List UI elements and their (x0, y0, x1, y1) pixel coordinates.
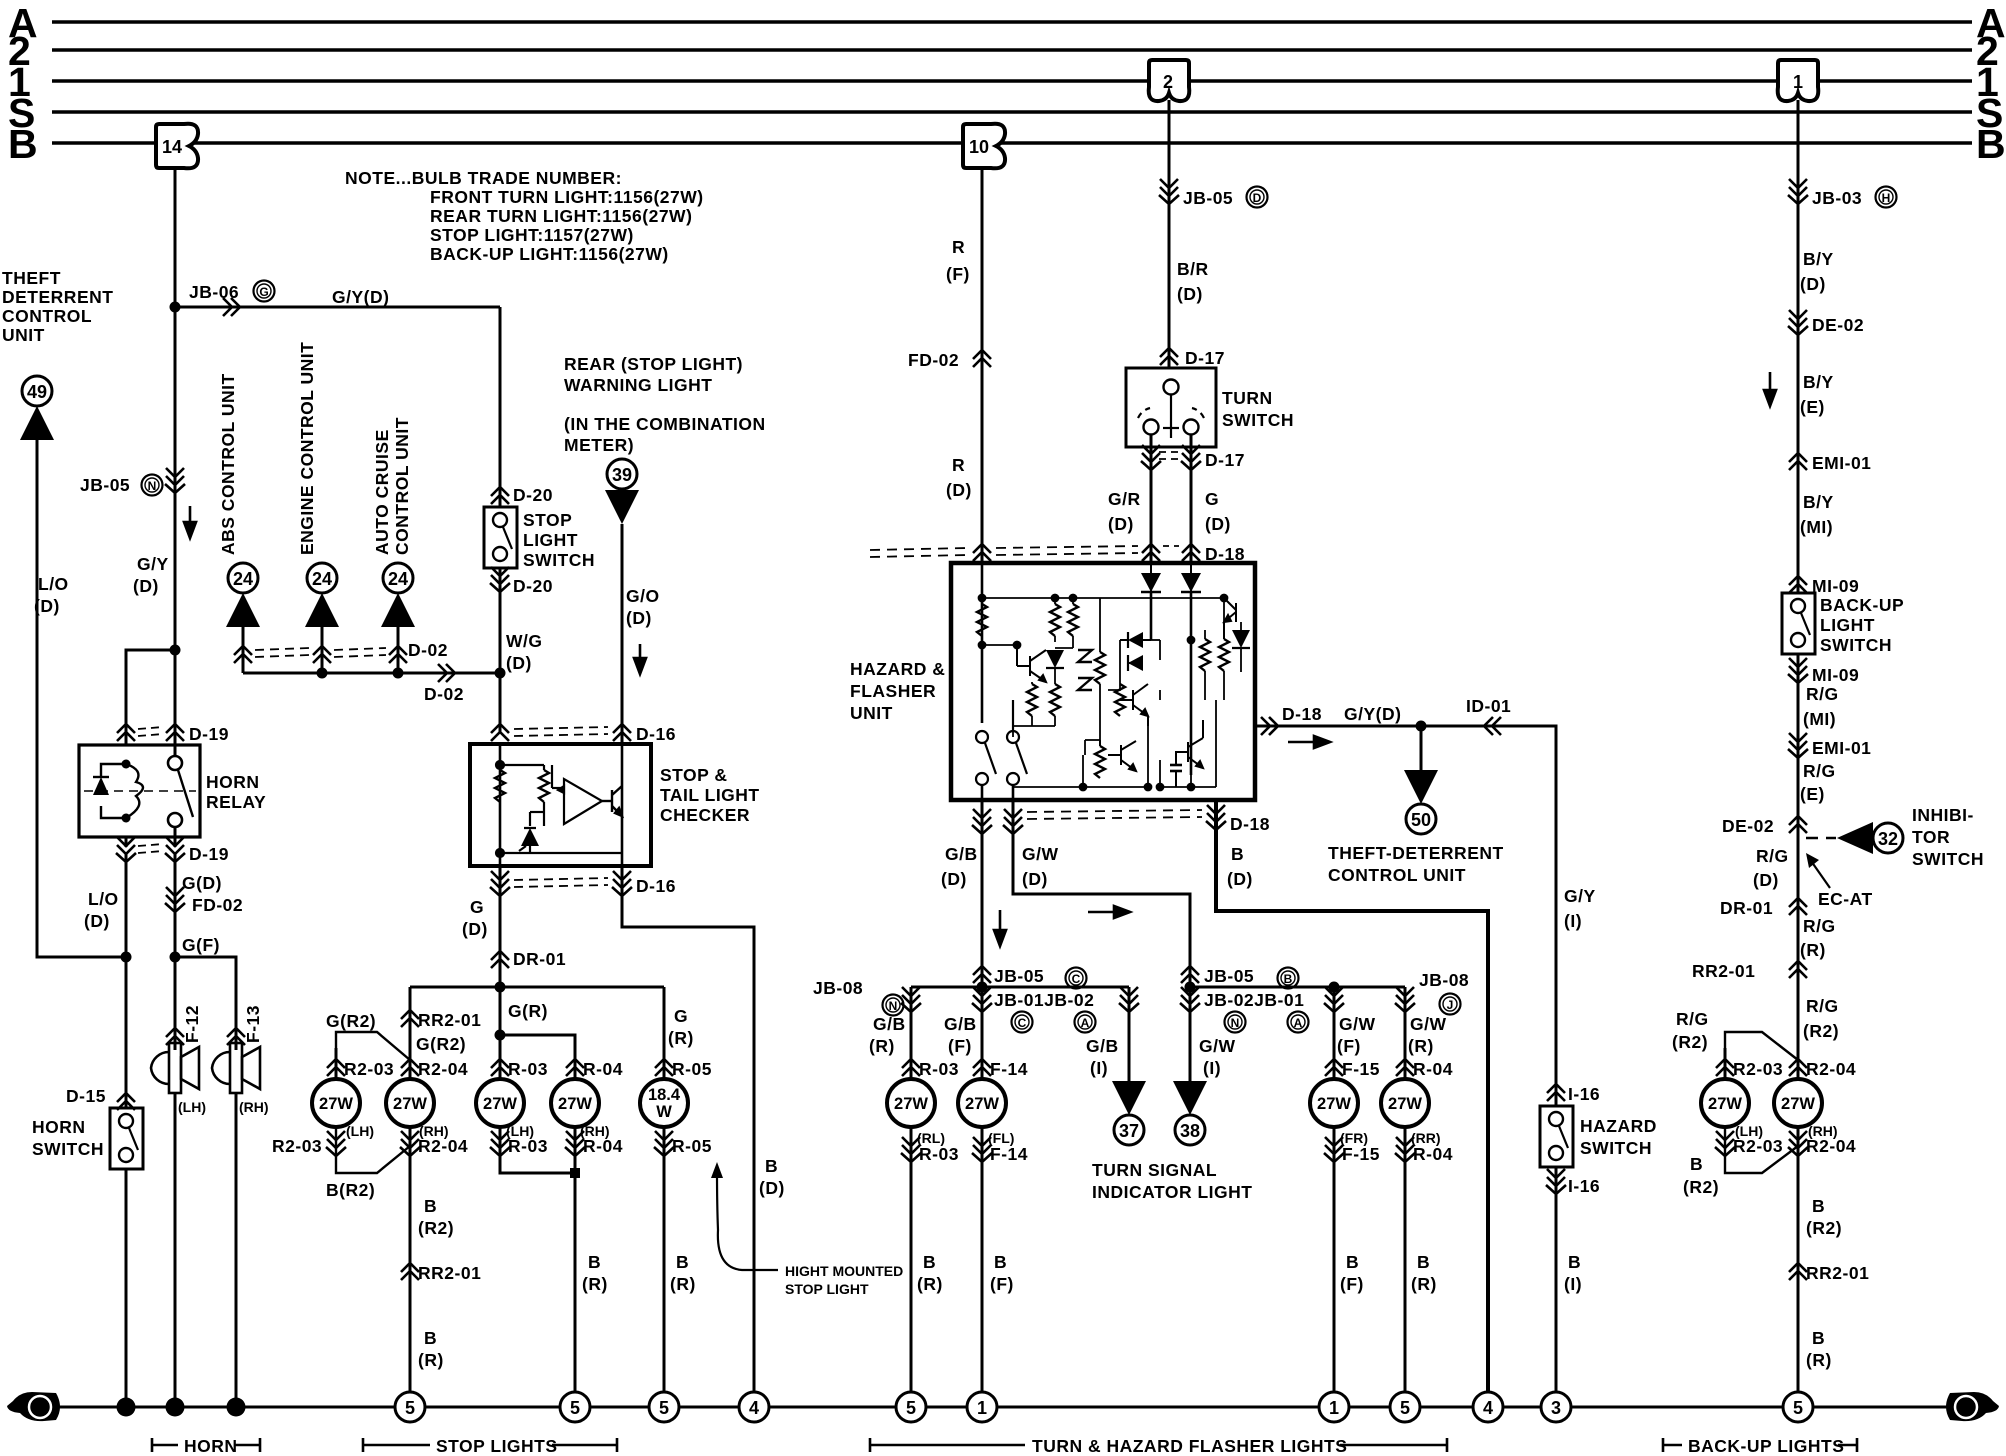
thick B wire from hazard to ground 4 (1216, 800, 1488, 1407)
horn relay coil (84, 760, 196, 823)
chevron D-15 (117, 1093, 135, 1110)
svg-text:B: B (1231, 844, 1244, 864)
svg-text:(R): (R) (1408, 1036, 1434, 1056)
svg-text:(D): (D) (1177, 284, 1203, 304)
svg-text:L/O: L/O (88, 889, 119, 909)
transistor T5 bottom right with cap (1170, 720, 1203, 787)
svg-text:(D): (D) (1022, 869, 1048, 889)
svg-text:RR2-01: RR2-01 (418, 1010, 481, 1030)
label JB-06 G (189, 282, 239, 302)
svg-text:32: 32 (1878, 829, 1898, 849)
svg-text:F-15: F-15 (1342, 1059, 1380, 1079)
diagonal backup LH top (1725, 1032, 1798, 1060)
svg-text:(F): (F) (1337, 1036, 1361, 1056)
chevron D-20 upper (491, 487, 509, 504)
back-up light switch (1782, 593, 1815, 654)
ground circle 5 (center stop) (560, 1392, 590, 1422)
ground car icon right (1946, 1392, 1999, 1421)
svg-text:R2-03: R2-03 (344, 1059, 394, 1079)
labels G/B (R), G/B (F) (869, 1014, 906, 1056)
arrow into 24 ABS (226, 593, 260, 627)
svg-text:UNIT: UNIT (850, 703, 893, 723)
wires below turn switch (1150, 435, 1153, 563)
svg-text:G(R): G(R) (508, 1001, 548, 1021)
svg-text:G/Y: G/Y (1564, 886, 1596, 906)
svg-text:JB-08: JB-08 (1419, 970, 1469, 990)
ground car icon left (7, 1392, 60, 1421)
chevron MI-09 top (1789, 576, 1807, 593)
resistor left column (977, 604, 987, 636)
svg-text:1: 1 (1793, 72, 1803, 92)
chevron JB-01 below junction (972, 987, 992, 1012)
svg-text:B/Y: B/Y (1803, 372, 1834, 392)
bottom network (1013, 700, 1216, 791)
svg-text:(F): (F) (946, 264, 970, 284)
svg-text:SWITCH: SWITCH (1222, 410, 1294, 430)
stop & tail light checker box (470, 744, 651, 866)
splice R2-04 RH stop lower (400, 1131, 420, 1156)
chevron FR (1324, 987, 1344, 1012)
svg-text:RR2-01: RR2-01 (1692, 961, 1755, 981)
svg-text:B: B (1812, 1196, 1825, 1216)
svg-text:G: G (33, 1398, 48, 1419)
circle 24 ENGINE (307, 563, 337, 593)
wire from checker right side to B(D) ground wire (622, 866, 754, 1407)
chevron JB-05 D (1159, 179, 1179, 204)
entry wires and diodes (981, 563, 984, 723)
chevron EMI-01 lower (1788, 733, 1808, 758)
chevron RR2-01 (401, 1010, 419, 1027)
svg-text:MI-09: MI-09 (1812, 665, 1859, 685)
svg-text:ENGINE CONTROL UNIT: ENGINE CONTROL UNIT (297, 342, 317, 555)
svg-text:(D): (D) (1753, 870, 1779, 890)
svg-text:F-15: F-15 (1342, 1144, 1380, 1164)
label B/R (D) (1177, 259, 1209, 304)
svg-text:(MI): (MI) (1800, 517, 1833, 537)
chevron EMI-01 (1789, 453, 1807, 470)
svg-text:BACK-UP LIGHT:1156(27W): BACK-UP LIGHT:1156(27W) (430, 244, 669, 264)
svg-text:STOP: STOP (523, 510, 572, 530)
chevron RR end (1395, 987, 1415, 1012)
connector box 10 on bus B (963, 124, 1005, 169)
label G/Y (D) (133, 554, 169, 596)
svg-text:(E): (E) (1800, 784, 1825, 804)
junction theft-deterrent (1416, 721, 1427, 732)
hazard internals (982, 563, 1191, 723)
bracket HORN (152, 1438, 260, 1452)
svg-text:50: 50 (1411, 810, 1431, 830)
switch 2 hazard (1007, 700, 1027, 800)
junction JB-06 (170, 302, 181, 313)
label R (F) (946, 237, 970, 284)
ground circle 5 (backup) (1783, 1392, 1813, 1422)
svg-text:24: 24 (388, 569, 408, 589)
arrow into 24 AUTO CRUISE (381, 593, 415, 627)
svg-text:MI-09: MI-09 (1812, 576, 1859, 596)
svg-text:THEFT: THEFT (2, 268, 61, 288)
direction arrow down (1764, 372, 1776, 406)
splice R-04 RR turn lower (1395, 1137, 1415, 1162)
svg-text:JB-06: JB-06 (189, 282, 239, 302)
chevron JB-05 N on wire 175 (165, 468, 185, 493)
svg-text:(I): (I) (1564, 1274, 1582, 1294)
svg-text:UNIT: UNIT (2, 325, 45, 345)
svg-text:R-05: R-05 (672, 1136, 712, 1156)
arrow into 49 (20, 406, 54, 440)
svg-text:R2-03: R2-03 (272, 1136, 322, 1156)
connector box 14 on bus B (156, 124, 198, 169)
transistor T1 (1017, 645, 1046, 682)
wires turn bulbs to ground (910, 1127, 913, 1407)
wire from box 10 down to hazard unit (981, 168, 984, 563)
svg-text:SWITCH: SWITCH (1820, 635, 1892, 655)
svg-text:(D): (D) (84, 911, 110, 931)
svg-text:1: 1 (977, 1398, 987, 1418)
svg-text:3: 3 (1551, 1398, 1561, 1418)
labels G/W (F), G/W (R) (1337, 1014, 1376, 1056)
svg-text:(D): (D) (946, 480, 972, 500)
svg-text:I-16: I-16 (1568, 1084, 1600, 1104)
svg-text:10: 10 (969, 137, 989, 157)
turn bulb RL (887, 1079, 935, 1127)
svg-text:B: B (923, 1252, 936, 1272)
horn relay box (79, 745, 200, 837)
turn bulb FL (958, 1079, 1006, 1127)
svg-text:CHECKER: CHECKER (660, 805, 750, 825)
chevron D-20 lower (490, 567, 510, 592)
wire center down to LH bulb (499, 987, 502, 1079)
D-18 output wire from hazard unit (1255, 726, 1556, 1106)
direction arrow down (634, 644, 646, 674)
splice R-04 RR turn upper (1396, 1059, 1414, 1076)
wire L/O from 49 down to horn switch branch (37, 440, 126, 957)
label G/O (D) (626, 586, 660, 628)
chevron JB-02 below junction (1180, 987, 1200, 1012)
svg-text:RR2-01: RR2-01 (418, 1263, 481, 1283)
junction to center jumper (495, 1030, 506, 1041)
svg-text:B: B (765, 1156, 778, 1176)
chevron JB-05 C on G/B wire (973, 966, 991, 983)
svg-text:G/R: G/R (1108, 489, 1141, 509)
svg-text:R2-03: R2-03 (1733, 1059, 1783, 1079)
svg-text:5: 5 (1793, 1398, 1803, 1418)
svg-text:JB-05: JB-05 (1204, 966, 1254, 986)
svg-text:I-16: I-16 (1568, 1176, 1600, 1196)
svg-text:G/W: G/W (1199, 1036, 1236, 1056)
chevron row D-02 with dashed links (234, 646, 252, 663)
backup bulb RH (1774, 1079, 1822, 1127)
svg-text:14: 14 (162, 137, 182, 157)
svg-text:(D): (D) (133, 576, 159, 596)
wire FL branch down (981, 987, 984, 1079)
svg-text:(R2): (R2) (1806, 1218, 1842, 1238)
junction G/W (1185, 982, 1196, 993)
wire relay output G(D) (174, 852, 177, 1050)
svg-text:R-03: R-03 (919, 1059, 959, 1079)
chevron JB-06 (223, 298, 240, 316)
wire G/O down to checker (621, 524, 624, 744)
splice D-16 bottom (490, 871, 510, 896)
svg-text:(MI): (MI) (1803, 709, 1836, 729)
top internal rail (979, 595, 1228, 602)
backup bulb LH (1701, 1079, 1749, 1127)
ground circle 4 (B D checker) (739, 1392, 769, 1422)
svg-text:G/Y(D): G/Y(D) (1344, 704, 1401, 724)
bus S (52, 110, 1972, 113)
horn switch box (110, 1108, 143, 1169)
chevron right end (1119, 987, 1139, 1012)
junction dots D-02 (317, 668, 328, 679)
svg-text:B: B (1976, 121, 2006, 167)
svg-text:R2-04: R2-04 (1806, 1136, 1856, 1156)
splice R-05 lower (654, 1131, 674, 1156)
chevron RR2-01 bottom right (1789, 1263, 1807, 1280)
connector circle 39 (607, 459, 637, 489)
chevron F-13 (227, 1028, 245, 1045)
svg-text:STOP LIGHT: STOP LIGHT (785, 1281, 869, 1297)
svg-text:THEFT-DETERRENT: THEFT-DETERRENT (1328, 843, 1504, 863)
svg-text:(I): (I) (1090, 1058, 1108, 1078)
arrow into 24 ENGINE (305, 593, 339, 627)
wire horn switch column (125, 852, 128, 1108)
ground circle 4 (B D hazard) (1473, 1392, 1503, 1422)
wire G (D) down from checker (499, 866, 502, 987)
svg-text:(LH): (LH) (178, 1099, 206, 1115)
splice R-04 RH stop upper (566, 1059, 584, 1076)
svg-text:TURN SIGNAL: TURN SIGNAL (1092, 1160, 1217, 1180)
svg-text:ID-01: ID-01 (1466, 696, 1511, 716)
bus labels left (8, 0, 38, 167)
label B (D) on 754 wire (759, 1156, 785, 1198)
splice R2-03 LH stop lower (326, 1131, 346, 1156)
resistor mid1 (1050, 604, 1060, 636)
svg-text:(RH): (RH) (239, 1099, 269, 1115)
mid resistors network (1095, 652, 1105, 684)
svg-text:HAZARD: HAZARD (1580, 1116, 1657, 1136)
svg-text:37: 37 (1119, 1121, 1139, 1141)
checker resistor 2 (539, 770, 549, 802)
svg-text:(D): (D) (462, 919, 488, 939)
svg-text:ABS CONTROL UNIT: ABS CONTROL UNIT (218, 373, 238, 555)
label R/G (MI) (1803, 684, 1839, 729)
splice F-14 FL turn upper (973, 1059, 991, 1076)
svg-text:HORN: HORN (206, 772, 260, 792)
wire from box 14 down (174, 168, 177, 733)
wire horn switch to ground (125, 1169, 128, 1407)
svg-text:G/W: G/W (1339, 1014, 1376, 1034)
svg-text:BACK-UP LIGHTS: BACK-UP LIGHTS (1688, 1436, 1844, 1456)
svg-text:(R): (R) (668, 1028, 694, 1048)
indicator arrow 38 (1189, 987, 1192, 1085)
wire D-02 horizontal (243, 672, 500, 675)
bus 1 (52, 79, 1972, 82)
svg-text:(D): (D) (1800, 274, 1826, 294)
label B/Y (E) (1800, 372, 1834, 417)
svg-text:R2-04: R2-04 (418, 1059, 468, 1079)
bracket TURN & HAZARD FLASHER LIGHTS (870, 1438, 1447, 1452)
svg-text:R2-04: R2-04 (1806, 1059, 1856, 1079)
chevron I-16 bottom (1546, 1169, 1566, 1194)
svg-text:F-14: F-14 (990, 1059, 1028, 1079)
svg-text:REAR (STOP LIGHT): REAR (STOP LIGHT) (564, 354, 743, 374)
wires horns to ground (174, 1093, 177, 1407)
svg-text:G/Y: G/Y (137, 554, 169, 574)
svg-text:B: B (1812, 1328, 1825, 1348)
svg-text:STOP LIGHTS: STOP LIGHTS (436, 1436, 558, 1456)
svg-text:(D): (D) (759, 1178, 785, 1198)
bus A (52, 20, 1972, 23)
resistors under T1 (1027, 684, 1037, 716)
svg-text:D-17: D-17 (1205, 450, 1245, 470)
svg-text:HORN: HORN (32, 1117, 86, 1137)
checker transistor (602, 786, 622, 816)
svg-text:B: B (676, 1252, 689, 1272)
stop light switch (484, 507, 517, 568)
svg-text:B/Y: B/Y (1803, 249, 1834, 269)
chevron MI-09 bottom (1788, 658, 1808, 683)
label R/G (R2) right (1803, 996, 1839, 1041)
svg-text:5: 5 (570, 1398, 580, 1418)
splice R2-04 backup lower (1788, 1131, 1808, 1156)
svg-text:DR-01: DR-01 (1720, 898, 1773, 918)
resistors right of center (1200, 639, 1210, 671)
wire branch to RH horn (175, 957, 236, 1050)
svg-text:G: G (1205, 489, 1219, 509)
svg-text:JB-01JB-02: JB-01JB-02 (994, 990, 1094, 1010)
splice F-14 FL turn lower (972, 1137, 992, 1162)
bracket STOP LIGHTS (363, 1438, 617, 1452)
svg-text:(D): (D) (1205, 514, 1231, 534)
svg-text:FLASHER: FLASHER (850, 681, 936, 701)
svg-text:(F): (F) (948, 1036, 972, 1056)
chevron D-17 top (1160, 348, 1178, 365)
inhibitor switch arrow and circle 32 (1806, 837, 1836, 840)
wire FR branch down (1333, 987, 1336, 1079)
chevron RR2-01 right (1789, 961, 1807, 978)
transistor T2 (1120, 684, 1148, 726)
wire 18.4W bulb to ground (663, 1127, 666, 1407)
NOTE text block (345, 168, 704, 264)
circle 24 AUTO CRUISE (383, 563, 413, 593)
diode right (1232, 622, 1250, 672)
label R/G (R2) left (1672, 1009, 1709, 1052)
svg-text:G/O: G/O (626, 586, 660, 606)
svg-text:5: 5 (906, 1398, 916, 1418)
svg-text:G(R2): G(R2) (416, 1034, 466, 1054)
wire from box 1 down (1797, 100, 1800, 593)
junction G/B (977, 982, 988, 993)
wire LH bulb bottom with B(R2) diagonal (336, 1127, 410, 1173)
svg-text:G/Y(D): G/Y(D) (332, 287, 389, 307)
svg-text:CONTROL UNIT: CONTROL UNIT (1328, 865, 1466, 885)
wire LH bulb top (335, 1048, 338, 1079)
svg-text:D-18: D-18 (1230, 814, 1270, 834)
svg-text:D-02: D-02 (424, 684, 464, 704)
junction G(R) main (495, 982, 506, 993)
checker resistor 1 (495, 770, 505, 802)
svg-text:4: 4 (1483, 1398, 1493, 1418)
bus labels right (1976, 0, 2006, 167)
splice R2-03 LH stop upper (327, 1059, 345, 1076)
svg-text:HIGHT MOUNTED: HIGHT MOUNTED (785, 1263, 903, 1279)
horn LH (151, 1043, 199, 1093)
junction FR (1329, 982, 1340, 993)
svg-text:(E): (E) (1800, 397, 1825, 417)
checker internals (496, 744, 622, 866)
label L/O (D) lower (84, 889, 119, 931)
svg-text:R: R (952, 237, 965, 257)
svg-text:G: G (1959, 1398, 1974, 1419)
turn switch box (1126, 368, 1216, 447)
svg-text:R/G: R/G (1756, 846, 1789, 866)
svg-text:39: 39 (612, 465, 632, 485)
svg-text:(R): (R) (1806, 1350, 1832, 1370)
chevron FD-02 (973, 350, 991, 367)
svg-text:G/W: G/W (1410, 1014, 1447, 1034)
svg-text:R-03: R-03 (508, 1059, 548, 1079)
svg-text:JB-08: JB-08 (813, 978, 863, 998)
svg-text:JB-02JB-01: JB-02JB-01 (1204, 990, 1304, 1010)
svg-text:TOR: TOR (1912, 827, 1950, 847)
svg-text:24: 24 (233, 569, 253, 589)
short rail (979, 636, 1021, 723)
svg-text:F-14: F-14 (990, 1144, 1028, 1164)
svg-text:SWITCH: SWITCH (32, 1139, 104, 1159)
chevron FD-02 (165, 887, 185, 912)
bus 2 (52, 48, 1972, 51)
direction arrow down G/B (994, 910, 1006, 946)
label R/G (D) (1753, 846, 1789, 890)
chevron F-12 (166, 1028, 184, 1045)
svg-text:(F): (F) (990, 1274, 1014, 1294)
svg-text:METER): METER) (564, 435, 634, 455)
svg-text:F-12: F-12 (182, 1005, 202, 1043)
svg-text:D-15: D-15 (66, 1086, 106, 1106)
svg-text:R-04: R-04 (583, 1059, 623, 1079)
svg-text:DR-01: DR-01 (513, 949, 566, 969)
svg-text:B: B (1690, 1154, 1703, 1174)
svg-text:5: 5 (659, 1398, 669, 1418)
ground circle 1 (FR turn) (1319, 1392, 1349, 1422)
svg-text:B: B (1346, 1252, 1359, 1272)
svg-text:(R2): (R2) (1803, 1021, 1839, 1041)
svg-text:B/R: B/R (1177, 259, 1209, 279)
stop bulb LH (R) (476, 1079, 524, 1127)
wire diagonal G(R2) to RH wire (336, 1032, 410, 1060)
wire RH rear2 bulb down to ground (409, 1127, 412, 1407)
svg-text:DETERRENT: DETERRENT (2, 287, 113, 307)
wires below hazard unit (981, 800, 984, 987)
transistor T3 top right (1224, 598, 1236, 639)
svg-text:G(D): G(D) (182, 873, 222, 893)
svg-text:(I): (I) (1203, 1058, 1221, 1078)
svg-text:D-20: D-20 (513, 485, 553, 505)
svg-text:49: 49 (27, 382, 47, 402)
svg-text:G/B: G/B (944, 1014, 977, 1034)
ground circle 3 (hazard switch) (1541, 1392, 1571, 1422)
splice R-05 upper (655, 1059, 673, 1076)
svg-text:(D): (D) (506, 653, 532, 673)
label B/Y (D) (1800, 249, 1834, 294)
splice D-19 top: chevrons and dashed link (117, 724, 135, 741)
splice R-03 LH stop upper (491, 1059, 509, 1076)
wire switch to D-02 junction (499, 568, 502, 733)
wires from arrows to D-02 bus (243, 627, 398, 673)
svg-text:SWITCH: SWITCH (523, 550, 595, 570)
junction G(F) (170, 952, 181, 963)
svg-text:5: 5 (1400, 1398, 1410, 1418)
wire G(R) horizontal main (410, 986, 664, 989)
